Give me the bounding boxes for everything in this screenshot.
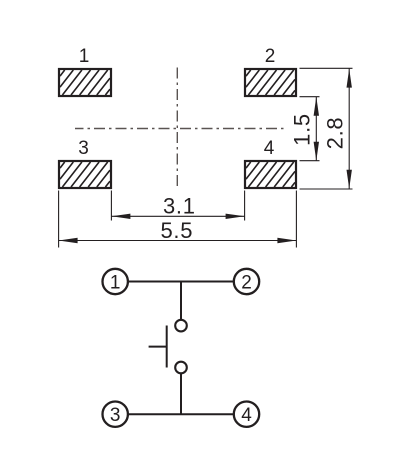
dimension 5.5 line: [59, 240, 297, 242]
svg-text:3: 3: [110, 405, 121, 426]
svg-text:5.5: 5.5: [160, 218, 193, 243]
terminal circle 4: [234, 402, 259, 427]
svg-text:1.5: 1.5: [289, 113, 314, 146]
pad 4: [245, 161, 296, 188]
pad 2: [245, 69, 296, 96]
svg-text:4: 4: [264, 138, 275, 159]
svg-text:4: 4: [241, 405, 252, 426]
dimension 2.8 line: [348, 68, 350, 189]
extension line pad2 bottom: [300, 96, 320, 98]
switch upper contact: [175, 320, 187, 332]
dimension 3.1 line: [111, 215, 244, 217]
pad 3: [59, 161, 111, 188]
extension line pad4 bottom: [300, 188, 353, 190]
extension line pad3 left: [58, 191, 60, 248]
extension line pad3 right: [110, 191, 112, 221]
switch lever: [166, 326, 168, 368]
svg-text:3.1: 3.1: [163, 193, 196, 218]
svg-text:1: 1: [110, 272, 121, 293]
pad 1: [59, 69, 111, 96]
extension line pad2 top: [300, 67, 353, 69]
switch actuator: [149, 346, 167, 348]
svg-text:2: 2: [265, 46, 276, 67]
extension line pad4 right: [295, 191, 297, 248]
wire top horizontal: [127, 281, 234, 283]
terminal circle 1: [103, 269, 128, 294]
svg-text:2.8: 2.8: [322, 117, 347, 150]
extension line pad4 top: [300, 160, 320, 162]
wire bottom vertical: [180, 374, 182, 415]
svg-text:3: 3: [78, 138, 89, 159]
svg-text:1: 1: [79, 46, 90, 67]
terminal circle 2: [234, 269, 259, 294]
svg-text:2: 2: [241, 272, 252, 293]
dimension 1.5 line: [315, 97, 317, 161]
wire top vertical: [180, 282, 182, 321]
centerline vertical: [176, 66, 178, 189]
terminal circle 3: [103, 402, 128, 427]
extension line pad4 left: [244, 191, 246, 221]
centerline horizontal: [75, 128, 284, 130]
wire bottom horizontal: [127, 413, 234, 415]
switch lower contact: [175, 362, 187, 374]
